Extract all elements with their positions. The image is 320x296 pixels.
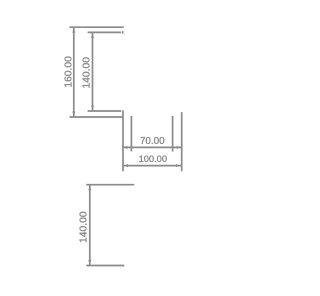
arrowhead 70.00 right (outside, pointing left) [174,146,179,149]
dimension line 70.00 horizontal [122,146,181,148]
arrowhead 100.00 right (inside, pointing right) [176,164,181,167]
extension line V1 (left end of 100.00) [122,110,124,171]
extension line V3 (right end of 70.00) [172,116,174,152]
svg-text:140.00: 140.00 [82,57,93,89]
arrowhead top of left dimension [72,28,75,33]
svg-text:100.00: 100.00 [139,154,167,164]
extension line bottom of bottom vertical dimension [86,265,124,267]
extension line V4 (right end of 100.00) [181,112,183,171]
svg-text:70.00: 70.00 [140,136,165,147]
extension line top of left vertical dimension [70,26,124,28]
arrowhead bottom of left dimension [72,112,75,117]
dimension line right vertical (140.00) [92,32,94,111]
tick at end of right top extension [122,31,124,34]
dimension line bottom vertical (140.00) [89,185,91,266]
arrowhead top of right dimension [91,33,94,38]
dimension line left vertical (160.00) [73,27,75,117]
extension line top of right vertical dimension [88,31,121,33]
arrowhead bottom of right dimension [91,106,94,111]
svg-text:160.00: 160.00 [64,56,75,88]
extension line V2 (left end of 70.00) [130,116,132,151]
arrowhead 70.00 left (outside, pointing right) [126,146,131,149]
dimension line 100.00 horizontal [122,165,181,167]
extension line bottom of left vertical dimension [70,116,124,118]
extension line top of bottom vertical dimension [86,184,134,186]
arrowhead 100.00 left (inside, pointing left) [123,164,128,167]
arrowhead bottom of bottom dimension [88,260,91,265]
svg-text:140.00: 140.00 [79,211,90,243]
extension line bottom of right vertical dimension [88,110,122,112]
arrowhead top of bottom dimension [88,186,91,191]
